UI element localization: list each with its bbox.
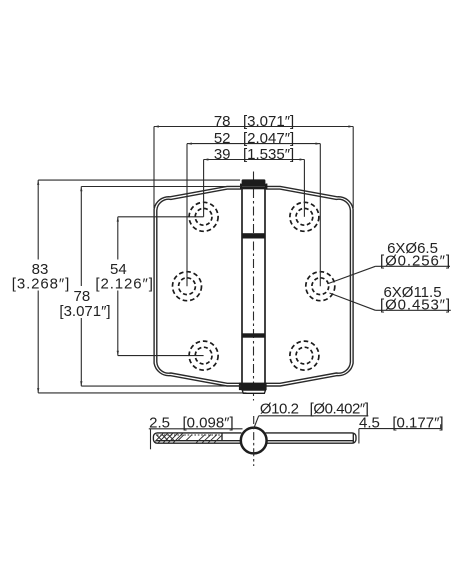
- svg-text:[3.071″]: [3.071″]: [59, 303, 110, 320]
- svg-text:[2.126″]: [2.126″]: [95, 276, 153, 293]
- svg-text:[3.268″]: [3.268″]: [12, 276, 70, 293]
- svg-text:[Ø0.453″]: [Ø0.453″]: [380, 296, 451, 313]
- svg-text:Ø10.2 [Ø0.402″]: Ø10.2 [Ø0.402″]: [260, 401, 369, 418]
- svg-text:52 [2.047″]: 52 [2.047″]: [214, 130, 294, 147]
- svg-text:78 [3.071″]: 78 [3.071″]: [214, 113, 294, 130]
- svg-text:39 [1.535″]: 39 [1.535″]: [214, 146, 294, 163]
- svg-text:[Ø0.256″]: [Ø0.256″]: [380, 252, 451, 269]
